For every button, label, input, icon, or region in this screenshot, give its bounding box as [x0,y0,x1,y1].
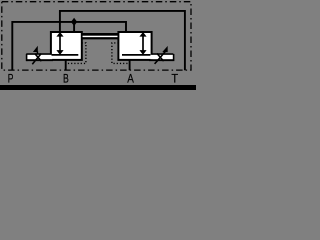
wire: junction stub down to left box top [73,22,75,32]
throttle X + adjust arrow (left) [32,46,41,64]
enclosure dash-dot border [2,2,191,70]
throttle channel left (white band through box left edge) [26,54,78,61]
wire: B port drop [65,60,67,71]
svg-text:B: B [63,72,69,86]
pilot line right (dotted) [112,43,129,64]
svg-text:P: P [8,72,14,86]
check valve arrow V1 (double-headed vertical) [56,32,63,55]
node junction diamond [71,18,77,26]
background plate [0,0,196,90]
pilot line left (dotted) [66,43,86,64]
throttle channel right (white band through box right edge) [122,54,174,61]
throttle X + adjust arrow (right) [155,46,168,64]
wire: lower rail from P port up, across, down into right box top [12,22,126,70]
bottom black bar [0,85,196,90]
wire: upper rail from left box top, up, across, down to T [60,11,185,70]
valve box V1 (left) [51,32,82,60]
bridge channel between boxes [81,35,119,39]
check valve arrow V2 (double-headed vertical) [139,32,146,55]
svg-text:A: A [127,72,134,86]
wire: A port drop [129,60,131,71]
svg-text:T: T [171,72,178,86]
valve box V2 (right) [118,32,151,60]
